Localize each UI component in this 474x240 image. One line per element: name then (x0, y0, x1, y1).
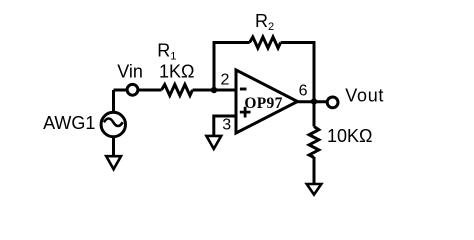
svg-text:1KΩ: 1KΩ (159, 61, 194, 81)
svg-text:3: 3 (222, 117, 231, 134)
svg-text:AWG1: AWG1 (43, 113, 95, 133)
svg-text:10KΩ: 10KΩ (327, 126, 372, 146)
svg-text:6: 6 (299, 83, 308, 100)
svg-text:R1: R1 (157, 41, 176, 63)
svg-text:2: 2 (221, 72, 230, 89)
svg-text:Vout: Vout (345, 85, 384, 105)
svg-text:Vin: Vin (117, 61, 143, 81)
svg-text:R2: R2 (255, 11, 274, 33)
svg-text:OP97: OP97 (244, 95, 282, 112)
